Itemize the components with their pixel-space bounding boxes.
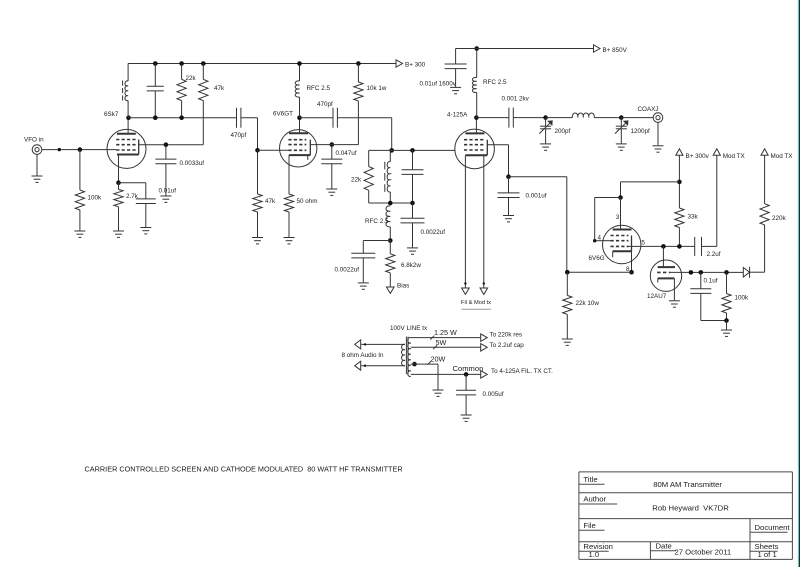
ground below 1200pf [616, 144, 627, 150]
wire 22k top lead [181, 64, 183, 80]
wire RFC lead top rail [299, 64, 301, 82]
tube V1 cathode lead [118, 155, 120, 183]
svg-text:6Sk7: 6Sk7 [104, 111, 119, 118]
resistor R 22k tank [351, 167, 373, 191]
resistor R 6.8k2w [386, 241, 422, 273]
title block Author cell [579, 495, 729, 513]
tube V4 cathode lead [631, 251, 633, 272]
resistor R 22k 10w [563, 272, 600, 314]
wire VFO input to 6SK7 grid [42, 149, 116, 151]
wire grid tank rail [369, 149, 456, 151]
wire grid V2 [258, 149, 289, 151]
wire tank cap bottom lead [154, 91, 156, 118]
svg-text:50 ohm: 50 ohm [297, 198, 318, 205]
node bias junction [388, 238, 393, 243]
svg-text:80M AM Transmitter: 80M AM Transmitter [653, 480, 722, 489]
wire 220k bottom lead [764, 225, 766, 272]
svg-text:To 2.2uf cap: To 2.2uf cap [490, 342, 525, 349]
svg-text:Common: Common [453, 364, 484, 373]
resistor R 47k screen feed [199, 79, 225, 100]
svg-text:B+ 300: B+ 300 [405, 61, 426, 68]
ground below 0.01uf [140, 228, 151, 234]
svg-text:5: 5 [641, 239, 645, 246]
transformer T1 secondary [408, 338, 411, 377]
node 22k top [179, 61, 184, 66]
power B+ 300v arrow [676, 149, 710, 160]
svg-text:Mod TX: Mod TX [723, 153, 746, 160]
wire VFO to ground [36, 154, 38, 175]
inductor L grid tank slug tuned [385, 162, 391, 192]
label Common [453, 364, 484, 373]
connector audio in arrow bottom [355, 361, 361, 370]
wire 0.0022uf right bottom [412, 223, 414, 247]
diode D1 [743, 267, 749, 278]
svg-text:Document: Document [755, 523, 791, 532]
wire 470pf to grid corner [241, 118, 258, 151]
wire diode to 220k [750, 271, 765, 273]
wire ground lead [726, 321, 728, 330]
tube V3 filament leg left [464, 155, 466, 288]
pin 8 label V4 [626, 266, 630, 273]
wire 47k grid leak top [257, 150, 259, 194]
node 100k diode tap [724, 270, 729, 275]
resistor R 22k [177, 75, 197, 101]
capacitor C 0.0022uf right [401, 218, 446, 236]
node tank bottom cap [410, 201, 415, 206]
wire top rail riser [127, 64, 129, 82]
wire tank cap top lead [154, 64, 156, 87]
svg-text:To 4-125A FIL. TX CT.: To 4-125A FIL. TX CT. [491, 368, 553, 375]
ground below 100k [74, 231, 85, 237]
tube V5 plate lead [662, 246, 664, 267]
wire 200pf to ground [545, 129, 547, 144]
wire 0.1uf bottom lead [701, 293, 727, 320]
wire 22k10w bottom lead [566, 314, 568, 338]
wire B+300v lead [678, 155, 680, 208]
wire 10k top lead [357, 64, 359, 83]
power Bias arrow [387, 283, 410, 294]
wire 0.001uf top lead [508, 177, 510, 193]
ground below 12AU7 cathode [669, 301, 680, 307]
power Mod TX arrow 2 [761, 149, 793, 160]
node tap 20W [412, 362, 417, 367]
ground below 2.7k [113, 231, 124, 237]
svg-text:Date: Date [656, 542, 672, 551]
wire tank bottom rail [369, 202, 413, 204]
wire 22k tank left drop [368, 150, 370, 166]
svg-text:0.0022uf: 0.0022uf [335, 267, 360, 274]
svg-text:6.8k2w: 6.8k2w [401, 262, 421, 269]
power B+ 850V arrow [594, 45, 628, 54]
wire screen to modulator [509, 177, 567, 273]
wire 0.047uf top lead [331, 145, 333, 159]
svg-text:To 220k res: To 220k res [490, 331, 523, 338]
wire 50 ohm bottom [288, 212, 290, 238]
ground below 0.01uf1600 [450, 87, 461, 93]
svg-text:0.01uf: 0.01uf [159, 188, 177, 195]
connector J2 COAXJ [638, 106, 663, 122]
capacitor C 0.1uf [690, 277, 717, 293]
ground below 22k10w [562, 339, 573, 345]
node grid V5 [689, 270, 694, 275]
node screen V2 bypass [330, 142, 335, 147]
svg-text:COAXJ: COAXJ [638, 106, 659, 113]
wire grid V5 line [670, 271, 743, 273]
svg-text:0.0033uf: 0.0033uf [180, 160, 205, 167]
node 0.005uf tap [464, 372, 469, 377]
wire RFC bias bottom [389, 227, 391, 241]
wire tank cap top lead [412, 150, 414, 169]
svg-text:4: 4 [598, 234, 602, 241]
resistor R 10k 1w [354, 82, 387, 101]
wire 0.0022uf left bottom [362, 258, 364, 282]
svg-text:B+ 300v: B+ 300v [686, 153, 710, 160]
wire 0.01uf1600 top lead [455, 49, 457, 64]
svg-text:File: File [583, 521, 595, 530]
wire 33k bottom lead [678, 228, 680, 247]
node 0.1uf tap [699, 270, 704, 275]
svg-text:6V6G: 6V6G [589, 255, 605, 262]
wire tank coil bottom lead [389, 192, 391, 203]
ground below VFO [32, 176, 43, 182]
wire bias to 0.0022uf [363, 241, 390, 254]
inductor RFC 2.5 plate [472, 78, 507, 93]
svg-text:0.001 2kv: 0.001 2kv [502, 96, 530, 103]
svg-text:200pf: 200pf [555, 128, 571, 135]
wire tank coil top lead [389, 150, 391, 161]
tube V2 cathode stub [307, 155, 309, 160]
ground below 0.0022uf right [407, 248, 418, 254]
node plate rail left / coil bottom [126, 115, 131, 120]
node screen feed 22k10w [565, 270, 570, 275]
ground below 0.047uf [326, 189, 337, 195]
capacitor C 0.01uf 1600v [420, 64, 467, 88]
node load cap [619, 115, 624, 120]
resistor R 47k grid leak [253, 194, 276, 212]
capacitor C 0.047uf [321, 150, 356, 164]
wire primary top lead [361, 343, 405, 345]
wire 0.01uf bottom lead [145, 204, 147, 228]
tube V3 filament leg right [483, 155, 485, 288]
svg-text:Title: Title [583, 475, 597, 484]
node grid V2 [255, 148, 260, 153]
node 47k top [201, 61, 206, 66]
wire RFC bottom [299, 97, 301, 118]
svg-text:RFC 2.5: RFC 2.5 [307, 85, 331, 92]
wire cathode V4 to 22k10w [567, 271, 631, 273]
wire coil bottom lead [127, 101, 129, 118]
wire plate to 470pf [300, 117, 334, 119]
svg-text:100k: 100k [88, 195, 103, 202]
wire coil to load node [594, 117, 621, 119]
ground below COAXJ [653, 146, 664, 152]
resistor R 50 ohm [284, 194, 317, 212]
power filament arrow left [462, 288, 470, 294]
label tap 1.25 W [430, 328, 457, 340]
wire 0.047uf bottom lead [331, 164, 333, 189]
wire screen V3 to dropper [487, 145, 508, 177]
wire tank cap2 top lead [412, 203, 414, 218]
svg-text:0.1uf: 0.1uf [704, 277, 718, 284]
svg-text:0.0022uf: 0.0022uf [421, 229, 446, 236]
tube V1 6SK7 [104, 111, 146, 169]
node screen bypass [164, 142, 169, 147]
wire secondary 1.25W lead [411, 337, 481, 339]
ground below 47k [252, 238, 263, 244]
resistor R 100k audio [722, 272, 749, 320]
title block Document cell [750, 523, 790, 533]
transformer T1 core [406, 337, 408, 374]
wire 47k grid leak bottom [257, 212, 259, 238]
tube V2 plate lead [299, 118, 301, 134]
tube V3 plate lead [475, 118, 477, 134]
tube V5 12AU7 [647, 260, 682, 300]
wire load node to COAXJ [621, 117, 653, 119]
capacitor C 0.0033uf [155, 159, 204, 167]
svg-text:CARRIER CONTROLLED SCREEN AND: CARRIER CONTROLLED SCREEN AND CATHODE MO… [85, 465, 403, 474]
wire 0.005uf top lead [465, 374, 467, 390]
tube V5 cathode lead [673, 278, 675, 300]
svg-text:Fil & Mod tx: Fil & Mod tx [461, 300, 491, 306]
svg-text:470pf: 470pf [317, 101, 333, 108]
wire 100k bottom lead [79, 210, 81, 231]
wire 470pf2 to corner [337, 118, 391, 151]
capacitor C 0.01uf cathode bypass [136, 188, 176, 204]
transformer T1 primary [402, 344, 405, 365]
power Mod TX arrow 1 [713, 149, 745, 160]
node cathode V1 [116, 180, 121, 185]
wire primary bottom lead [361, 365, 405, 367]
svg-text:3: 3 [616, 214, 620, 221]
node plate V3 [474, 115, 479, 120]
svg-text:27 October 2011: 27 October 2011 [675, 548, 732, 557]
svg-text:RFC 2.5: RFC 2.5 [483, 79, 507, 86]
inductor RFC 2.5 bias [365, 206, 390, 227]
inductor L tank output [572, 113, 594, 118]
wire tune node to coil [546, 117, 573, 119]
inductor RFC 2.5 stage2 [295, 81, 330, 97]
node grid 6SK7 / 100k [78, 147, 83, 152]
wire 1200pf to ground [620, 129, 622, 144]
ground below 0.001uf [503, 216, 514, 222]
connector To 220k res arrow [481, 331, 522, 341]
tube V4 6V6G [589, 225, 641, 263]
page edge shading [794, 0, 800, 567]
wire 0.005uf bottom lead [465, 395, 467, 415]
wire 2.2uf to ModTX1 [702, 245, 717, 247]
wire 0.01uf1600 bottom lead [455, 69, 457, 87]
wire common line [411, 373, 481, 375]
tube V5 cathode stub [657, 278, 659, 282]
svg-text:10k 1w: 10k 1w [367, 85, 387, 92]
pin 4 label V4 [598, 234, 602, 241]
wire cathode junction to 2.7k [118, 183, 120, 190]
node 100k bottom [724, 318, 729, 323]
svg-text:0.047uf: 0.047uf [336, 150, 357, 157]
wire 22k tank bottom [368, 190, 370, 203]
resistor R 33k [675, 208, 699, 228]
capacitor C 1200pf variable [615, 118, 650, 135]
svg-text:0.001uf: 0.001uf [526, 193, 547, 200]
node tank cap top [410, 148, 415, 153]
svg-text:Rob Heyward VK7DR: Rob Heyward VK7DR [652, 503, 729, 512]
svg-text:22k: 22k [186, 75, 197, 82]
power B+ 300 arrow [396, 60, 426, 69]
capacitor tank (unlabelled) [147, 86, 164, 91]
capacitor C tank stage3 [402, 170, 424, 175]
node 22k bottom [179, 115, 184, 120]
tube V4 cathode stub [612, 251, 614, 257]
capacitor C 0.001 2kv blocking [502, 96, 530, 128]
node tank bottom coil [388, 201, 393, 206]
svg-text:6V6GT: 6V6GT [273, 111, 293, 118]
inductor L1 VFO tank coil [123, 81, 129, 101]
ground below 100k [721, 330, 732, 336]
svg-text:22k: 22k [351, 177, 362, 184]
title block File cell [579, 521, 605, 530]
wire 0.1uf top lead [700, 272, 702, 289]
wire RFC plate bottom [476, 92, 478, 117]
wire B+ top rail [128, 63, 396, 65]
svg-text:33k: 33k [688, 214, 699, 221]
svg-text:Bias: Bias [397, 283, 409, 290]
node 33k bottom [677, 244, 682, 249]
svg-text:22k 10w: 22k 10w [576, 300, 600, 307]
node RFC top [297, 61, 302, 66]
tube V4 plate lead [620, 198, 622, 230]
svg-text:47k: 47k [265, 198, 276, 205]
wire 47k top lead [202, 64, 204, 80]
label Fil and Mod tx [461, 300, 491, 309]
node B+850 rail [474, 46, 479, 51]
wire 2.7k bottom lead [118, 207, 120, 231]
node 12AU7 plate [661, 244, 666, 249]
ground below 0.0033uf [160, 196, 171, 202]
svg-text:470pf: 470pf [231, 132, 247, 139]
wire 0.0033uf bottom lead [165, 164, 167, 196]
wire plate loop riser [620, 182, 622, 198]
connector audio in arrow top [355, 340, 361, 349]
wire screen strap V4 [593, 198, 621, 243]
node tank cap top [153, 61, 158, 66]
svg-text:47k: 47k [214, 85, 225, 92]
title block Date cell [650, 542, 731, 557]
wire B+850 rail [456, 48, 594, 50]
ground below 50 ohm [284, 238, 295, 244]
svg-text:220k: 220k [772, 215, 787, 222]
wire grid V4 line [629, 245, 695, 247]
svg-text:VFO in: VFO in [24, 137, 44, 144]
wire cathode to bypass cap [119, 183, 146, 199]
svg-text:1 of 1: 1 of 1 [758, 550, 777, 559]
node plate V2 [297, 115, 302, 120]
resistor R 220k [760, 204, 787, 225]
tube V2 6V6GT [273, 111, 317, 168]
wire plate rail stage1 [128, 117, 236, 119]
wire 47k bottom lead crosses plate rail [202, 101, 204, 145]
wire COAXJ to ground [657, 122, 659, 145]
connector To 4-125A FIL arrow [481, 368, 553, 378]
svg-text:4-125A: 4-125A [447, 112, 468, 119]
tube V2 cathode lead [288, 155, 290, 194]
wire 20W tap lead [411, 364, 438, 374]
tube V1 plate lead [127, 118, 129, 134]
svg-text:100V LINE tx: 100V LINE tx [390, 325, 428, 332]
ground common [433, 390, 444, 396]
svg-text:1200pf: 1200pf [631, 128, 651, 135]
wire screen line V2 [310, 144, 358, 146]
label 100V LINE tx [390, 325, 428, 332]
wire blocking cap to tune node [513, 117, 545, 119]
wire 22k bottom lead [181, 101, 183, 118]
wire RFC plate top [476, 49, 478, 78]
capacitor C 0.005uf [456, 390, 504, 398]
svg-text:RFC 2.5: RFC 2.5 [365, 218, 389, 225]
resistor R 2.7k [114, 189, 139, 206]
connector J1 VFO in [24, 137, 44, 155]
wire ModTX1 lead [716, 155, 718, 246]
node B+300v / plate loop [677, 180, 682, 185]
node tune cap [543, 115, 548, 120]
title block Title cell [579, 475, 723, 489]
node cathode V4 [629, 270, 634, 275]
wire 0.0033uf top lead [165, 145, 167, 159]
wire 100k top lead [79, 150, 81, 190]
svg-text:2.2uf: 2.2uf [707, 251, 721, 258]
wire bias arrow lead [389, 273, 391, 287]
wire common ground lead [437, 374, 439, 389]
wire screen riser to 10k [357, 101, 359, 145]
svg-text:100k: 100k [735, 294, 750, 301]
svg-text:B+ 850V: B+ 850V [603, 47, 628, 54]
ground below 0.005uf [461, 415, 472, 421]
svg-text:8 ohm Audio In: 8 ohm Audio In [342, 352, 385, 359]
node plate V4 [618, 195, 623, 200]
wire plate to blocking cap [476, 117, 509, 119]
capacitor C 0.001uf screen bypass [498, 193, 547, 200]
svg-text:0.01uf 1600v: 0.01uf 1600v [420, 81, 457, 88]
node 10k top [356, 61, 361, 66]
svg-text:Author: Author [583, 495, 606, 504]
title block frame [579, 472, 793, 560]
title block Sheets cell [750, 542, 779, 559]
wire plate loop horizontal [621, 181, 680, 183]
title block Revision cell [579, 542, 613, 559]
svg-text:1.25 W: 1.25 W [434, 328, 457, 337]
ground below 0.0022uf left [358, 283, 369, 289]
wire 0.001uf bottom lead [508, 198, 510, 215]
power filament arrow right [480, 288, 488, 294]
label tap 5W [433, 338, 446, 349]
svg-text:Mod TX: Mod TX [771, 153, 794, 160]
capacitor C 470pf coupling 2 [317, 101, 337, 128]
svg-text:1.0: 1.0 [589, 550, 600, 559]
wire secondary 5W lead [411, 346, 481, 348]
node screen V3 bypass [506, 174, 511, 179]
svg-text:0.005uf: 0.005uf [483, 391, 504, 398]
tube V3 4-125A [447, 112, 494, 169]
wire ModTX2 lead [764, 155, 766, 204]
pin 3 label V4 [616, 214, 620, 221]
node tank rail / riser [389, 148, 394, 153]
label 8 ohm Audio In [342, 352, 385, 359]
wire tank cap bottom lead [412, 174, 414, 203]
capacitor C 470pf coupling [231, 108, 247, 140]
connector To 2.2uf cap arrow [481, 342, 525, 351]
capacitor C 2.2uf coupling [695, 237, 721, 258]
svg-text:20W: 20W [431, 354, 446, 363]
capacitor C 200pf variable [539, 118, 570, 135]
